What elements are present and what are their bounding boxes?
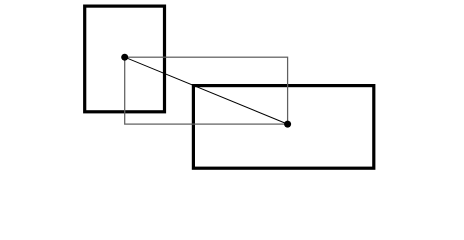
node A anchor dot: [121, 54, 128, 61]
node A (small thick-border rectangle): [85, 6, 165, 112]
bounding box (thin gray rectangle spanning the two anchor points): [125, 57, 288, 124]
node B anchor dot: [284, 121, 291, 128]
wire (diagonal connector line between anchor dots): [125, 57, 288, 124]
node B (large thick-border rectangle): [193, 86, 373, 169]
